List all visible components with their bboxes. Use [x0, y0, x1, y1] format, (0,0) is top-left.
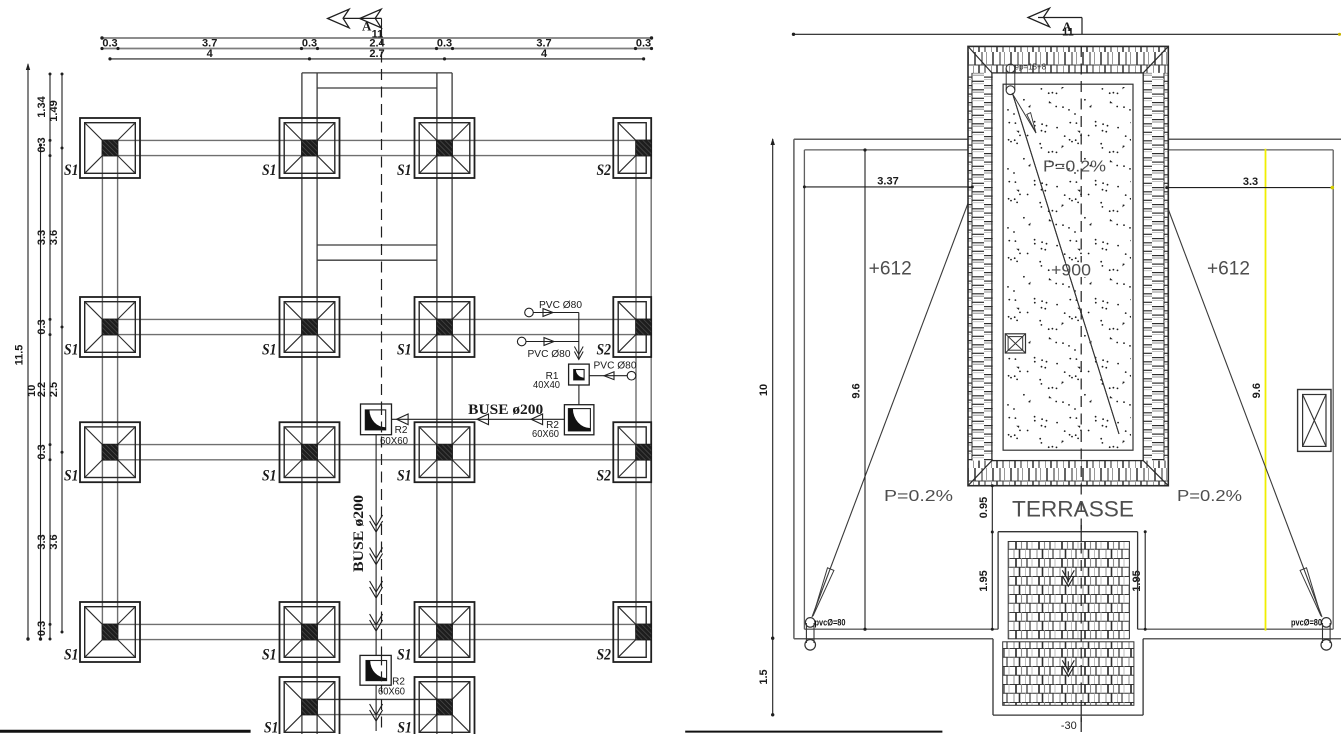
- svg-text:0.3: 0.3: [36, 621, 48, 636]
- svg-text:1.49: 1.49: [48, 100, 60, 121]
- svg-text:0.3: 0.3: [36, 137, 48, 152]
- svg-text:3.37: 3.37: [877, 175, 898, 187]
- svg-text:S2: S2: [597, 341, 612, 358]
- svg-text:11.5: 11.5: [14, 345, 26, 366]
- svg-text:0.3: 0.3: [302, 37, 317, 49]
- svg-text:40X40: 40X40: [533, 380, 560, 391]
- svg-text:S1: S1: [397, 162, 412, 179]
- svg-text:0.3: 0.3: [36, 444, 48, 459]
- svg-text:3.3: 3.3: [36, 534, 48, 549]
- svg-text:60X60: 60X60: [380, 436, 408, 447]
- svg-text:TERRASSE: TERRASSE: [1012, 497, 1134, 522]
- svg-text:1.95: 1.95: [978, 570, 990, 591]
- svg-text:1.5: 1.5: [758, 669, 770, 684]
- svg-text:11: 11: [1062, 27, 1074, 39]
- svg-text:S2: S2: [597, 646, 612, 663]
- svg-text:ep=15+8: ep=15+8: [1015, 63, 1047, 72]
- svg-text:P=0.2%: P=0.2%: [1043, 159, 1106, 176]
- svg-text:S1: S1: [262, 162, 277, 179]
- svg-text:2.7: 2.7: [369, 48, 384, 60]
- svg-text:0.3: 0.3: [36, 319, 48, 334]
- svg-text:0.3: 0.3: [102, 37, 117, 49]
- svg-text:S1: S1: [397, 719, 412, 734]
- svg-text:BUSE ø200: BUSE ø200: [468, 402, 543, 418]
- svg-text:9.6: 9.6: [850, 383, 862, 398]
- svg-text:P=0.2%: P=0.2%: [1177, 488, 1242, 505]
- svg-text:3.3: 3.3: [1243, 176, 1258, 188]
- svg-text:0.95: 0.95: [978, 497, 990, 518]
- svg-text:R2: R2: [395, 425, 408, 436]
- svg-text:1.34: 1.34: [36, 95, 48, 117]
- svg-text:pvcØ=80: pvcØ=80: [815, 617, 846, 627]
- svg-text:2.5: 2.5: [48, 382, 60, 397]
- svg-text:+612: +612: [1207, 259, 1250, 280]
- svg-text:S1: S1: [264, 719, 279, 734]
- svg-text:S1: S1: [397, 341, 412, 358]
- svg-text:S1: S1: [64, 162, 79, 179]
- svg-text:+612: +612: [869, 259, 912, 280]
- svg-text:S1: S1: [64, 467, 79, 484]
- svg-text:60X60: 60X60: [378, 687, 405, 698]
- svg-text:9.6: 9.6: [1251, 383, 1263, 398]
- svg-text:2.2: 2.2: [36, 382, 48, 397]
- svg-text:4: 4: [207, 48, 214, 60]
- svg-text:60X60: 60X60: [532, 429, 559, 440]
- svg-text:pvcØ=80: pvcØ=80: [1291, 617, 1322, 627]
- svg-text:S2: S2: [597, 162, 612, 179]
- svg-text:S1: S1: [262, 341, 277, 358]
- svg-text:S1: S1: [262, 646, 277, 663]
- svg-text:+900: +900: [1051, 261, 1091, 280]
- svg-text:P=0.2%: P=0.2%: [884, 488, 953, 505]
- svg-text:BUSE ø200: BUSE ø200: [351, 495, 367, 572]
- svg-text:PVC Ø80: PVC Ø80: [539, 300, 582, 311]
- svg-text:10: 10: [758, 384, 770, 396]
- svg-text:3.6: 3.6: [48, 534, 60, 549]
- svg-text:PVC Ø80: PVC Ø80: [528, 349, 571, 360]
- svg-text:0.3: 0.3: [636, 37, 651, 49]
- svg-text:0.3: 0.3: [437, 37, 452, 49]
- svg-text:PVC Ø80: PVC Ø80: [594, 360, 637, 371]
- svg-text:S1: S1: [64, 646, 79, 663]
- svg-text:A: A: [362, 19, 372, 34]
- svg-text:-30: -30: [1061, 720, 1077, 732]
- svg-text:S1: S1: [64, 341, 79, 358]
- svg-text:S2: S2: [597, 467, 612, 484]
- svg-text:3.3: 3.3: [36, 230, 48, 245]
- svg-text:S1: S1: [397, 467, 412, 484]
- svg-text:S1: S1: [262, 467, 277, 484]
- svg-text:4: 4: [541, 48, 548, 60]
- svg-text:S1: S1: [397, 646, 412, 663]
- svg-text:3.6: 3.6: [48, 230, 60, 245]
